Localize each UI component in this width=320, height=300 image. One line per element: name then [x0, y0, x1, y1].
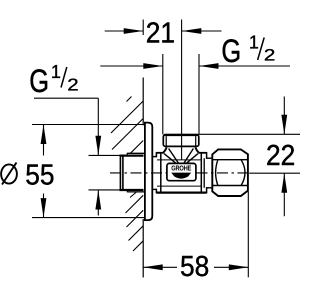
- wall hatching: [111, 97, 143, 252]
- knurled nut: [212, 149, 248, 196]
- inlet thread G1/2 male: [120, 153, 146, 193]
- main centerline dash-dot: [110, 172, 248, 174]
- funnel cone outer edges: [163, 147, 198, 152]
- wall face line upper: [142, 78, 144, 126]
- svg-text:55: 55: [25, 158, 54, 190]
- boss right steps to nut neck: [204, 152, 212, 193]
- dimension 58 bottom: [143, 192, 248, 283]
- outlet thread bar G1/2: [163, 135, 199, 147]
- wall face line lower + 58 left extension: [142, 219, 144, 278]
- svg-text:GROHE: GROHE: [171, 165, 192, 173]
- cylinder silhouette edges: [157, 160, 202, 186]
- svg-text:2: 2: [264, 45, 275, 64]
- body boss fill: [156, 153, 206, 193]
- svg-text:G: G: [221, 34, 241, 70]
- funnel inner V lines: [164, 149, 198, 164]
- svg-text:G: G: [29, 64, 49, 100]
- svg-text:2: 2: [67, 75, 78, 94]
- dimension G1/2 top (outlet thread): [100, 32, 290, 134]
- svg-text:22: 22: [266, 139, 295, 171]
- dimension 21: [105, 17, 222, 135]
- boss left steps to flange: [152, 152, 156, 193]
- label G1/2 left (inlet thread): [29, 62, 101, 216]
- GROHE logo bowl: [171, 173, 191, 179]
- svg-text:1: 1: [249, 32, 259, 52]
- GROHE wordmark: [171, 165, 192, 173]
- GROHE label plate: [167, 163, 196, 180]
- thread OD extension lines left: [89, 155, 121, 190]
- dimension 22 right: [197, 97, 300, 217]
- svg-text:21: 21: [146, 17, 175, 49]
- outlet center dash in cone: [181, 147, 183, 160]
- boss bottom edge: [156, 192, 206, 194]
- wall flange rosette: [145, 123, 152, 221]
- dimension diameter 55: [1, 125, 145, 218]
- boss side face lines: [161, 153, 202, 192]
- svg-text:58: 58: [180, 250, 209, 282]
- boss top shelf left: [156, 152, 206, 154]
- svg-text:1: 1: [51, 62, 61, 82]
